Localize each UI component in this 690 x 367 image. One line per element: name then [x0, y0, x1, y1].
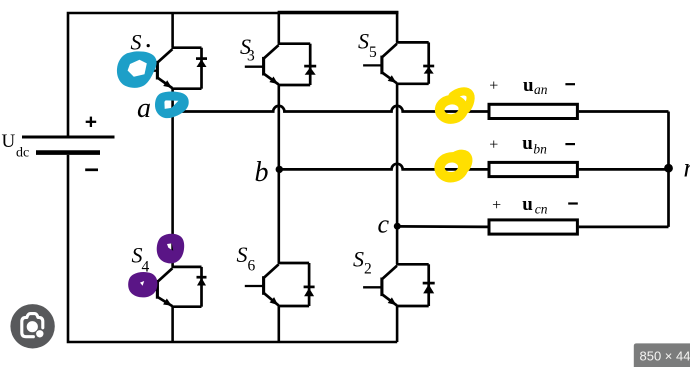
annotation yellow scribble on a output wire — [438, 91, 470, 120]
anti-parallel diode of S3 — [304, 44, 316, 85]
svg-text:850 × 44: 850 × 44 — [640, 349, 690, 364]
svg-text:+: + — [489, 137, 498, 154]
transistor S6 (IGBT body) — [245, 263, 309, 306]
wire phase-a leg (S1 drain / node a / S4) — [171, 12, 174, 342]
transistor S3 (IGBT body) — [245, 44, 310, 85]
anti-parallel diode of S5 — [423, 42, 434, 83]
wire node b to load u_bn (hops over c leg) — [279, 164, 488, 170]
wire node a to load u_an (hops over b and c legs) — [173, 106, 488, 112]
label S6 — [237, 242, 256, 275]
annotation yellow scribble on b output wire — [438, 154, 468, 179]
transistor S1 (IGBT body) — [149, 48, 202, 89]
svg-text:u: u — [522, 194, 533, 215]
anti-parallel diode of S4 — [197, 267, 207, 307]
svg-text:n: n — [684, 153, 690, 183]
label S4 — [132, 243, 150, 276]
label u_an voltage — [523, 75, 548, 97]
node c junction dot — [394, 223, 401, 230]
transistor S4 (IGBT body) — [139, 267, 202, 307]
svg-text:3: 3 — [247, 48, 255, 65]
svg-text:6: 6 — [248, 258, 256, 275]
transistor S2 (IGBT body) — [363, 264, 429, 306]
resistor load u_bn — [489, 162, 577, 176]
svg-text:b: b — [255, 157, 269, 188]
svg-text:a: a — [137, 93, 151, 124]
resistor load u_cn — [489, 220, 577, 234]
svg-text:dc: dc — [16, 146, 29, 161]
transistor S5 (IGBT body) — [363, 42, 429, 83]
svg-text:+: + — [489, 77, 498, 94]
svg-text:S: S — [237, 242, 248, 267]
label S2 — [353, 247, 372, 278]
svg-text:an: an — [534, 82, 548, 97]
label Udc — [2, 131, 30, 160]
annotation cyan scribble over node a — [155, 92, 189, 119]
annotation cyan scribble over S1 label — [117, 51, 157, 87]
svg-text:U: U — [2, 131, 16, 152]
label S3 — [240, 34, 255, 65]
node b junction dot — [276, 166, 283, 173]
label + of source — [86, 117, 97, 127]
label u_cn voltage — [522, 194, 548, 217]
wire neutral bus (right vertical) — [667, 112, 670, 227]
wire phase-b leg (S3 / node b / S6) — [277, 12, 280, 342]
svg-text:u: u — [523, 75, 534, 96]
node n junction dot — [664, 164, 673, 173]
svg-text:S: S — [131, 30, 142, 55]
wire u_cn to neutral bus — [579, 226, 669, 229]
label - of source — [85, 168, 98, 171]
label S1 subscript remnant dot — [147, 44, 150, 47]
wire u_an to neutral bus — [579, 110, 669, 113]
wire negative DC bus (bottom rail) — [68, 155, 397, 342]
svg-text:u: u — [522, 133, 533, 154]
wire u_bn to neutral bus — [579, 168, 669, 171]
svg-text:S: S — [353, 247, 364, 272]
label - u_bn — [565, 143, 575, 145]
anti-parallel diode of S6 — [304, 263, 315, 306]
svg-text:cn: cn — [535, 202, 548, 217]
Google Lens camera button — [10, 304, 54, 348]
voltage source Udc (battery plates) — [22, 137, 115, 153]
svg-text:c: c — [378, 210, 390, 239]
annotation purple scribble over S4 base lead — [128, 272, 157, 297]
label - u_an — [565, 83, 575, 85]
svg-text:+: + — [492, 197, 501, 214]
label S5 — [358, 29, 377, 62]
wire positive DC bus (top rail) — [68, 12, 398, 135]
svg-text:2: 2 — [364, 261, 372, 278]
image dimensions badge 850x445 — [634, 343, 690, 367]
annotation purple scribble over a-leg above S4 — [157, 234, 184, 264]
label S1 — [131, 30, 142, 55]
anti-parallel diode of S2 — [423, 264, 435, 306]
label u_bn voltage — [522, 133, 547, 157]
svg-text:5: 5 — [369, 44, 377, 61]
svg-text:bn: bn — [533, 142, 547, 157]
label - u_cn — [568, 202, 578, 204]
svg-text:S: S — [358, 29, 369, 54]
anti-parallel diode of S1 — [196, 48, 207, 89]
wire node c to load u_cn — [397, 225, 487, 228]
wire phase-c leg (S5 / node c / S2) — [396, 11, 399, 342]
resistor load u_an — [489, 104, 577, 118]
